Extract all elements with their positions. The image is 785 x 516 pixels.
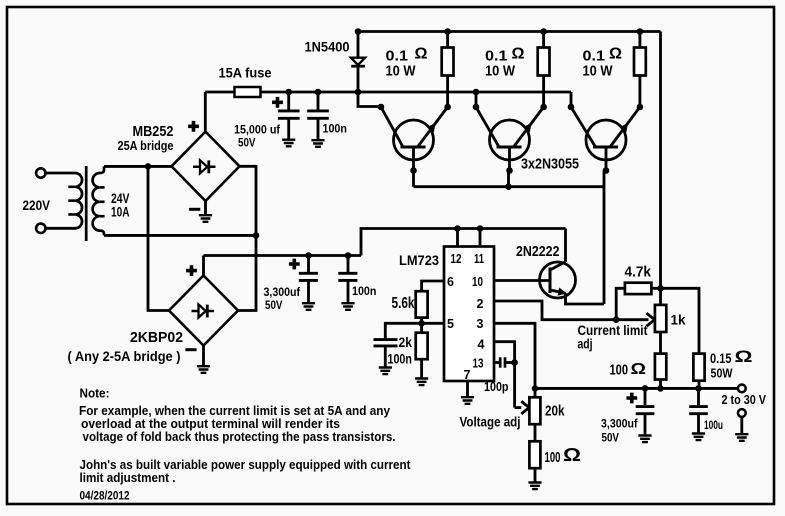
svg-text:3,300uf: 3,300uf [264, 285, 301, 299]
svg-text:5: 5 [447, 317, 454, 331]
wire 2N2222 collector up [564, 229, 567, 262]
svg-text:100u: 100u [704, 418, 723, 432]
svg-text:Ω: Ω [609, 46, 622, 63]
svg-text:1k: 1k [671, 312, 686, 328]
note line 5 [80, 471, 176, 485]
pin number 2 [477, 297, 484, 311]
wire pin 5 to 100n [385, 323, 444, 339]
label 100p [484, 380, 509, 394]
svg-text:50V: 50V [265, 298, 283, 312]
diode symbol inside 2KBP02 [192, 305, 215, 318]
label 3,300uf (C5) [601, 417, 638, 431]
minus polarity mark MB252 [189, 208, 200, 211]
label ohm symbol (100 current limit) [631, 361, 647, 378]
node Q3 base dot [603, 167, 610, 174]
output terminal negative [738, 409, 746, 417]
label 50V [238, 135, 256, 149]
capacitor C1 15,000uf 50V [278, 92, 300, 140]
note line 3 [83, 430, 396, 444]
wire Q3 base stem down to 2N2222 emitter [603, 171, 606, 305]
svg-text:100n: 100n [388, 351, 412, 366]
label Voltage adj [460, 414, 521, 430]
transistor Q3 2N3055 [571, 107, 640, 171]
bridge rectifier 2KBP02 diamond [169, 276, 238, 346]
node junction pin 12 stub [454, 225, 461, 232]
transformer T1 220V primary terminal bottom [36, 224, 45, 233]
label ohm symbol (R1) [415, 46, 428, 63]
node junction secondary-top / bridge2 feed [145, 163, 152, 170]
node junction rail/diode top [355, 28, 362, 35]
svg-text:Ω: Ω [415, 46, 428, 63]
svg-text:0.15: 0.15 [710, 350, 732, 366]
label ohm symbol (R2) [512, 46, 525, 63]
wire output negative to ground [740, 417, 743, 434]
ground at C6 [692, 434, 705, 441]
node junction 5.6k / 2k / pin 5 [418, 320, 425, 327]
capacitor 100n at pin 5 [374, 340, 398, 368]
label 50V (C5) [602, 431, 620, 445]
svg-text:Note:: Note: [80, 387, 110, 401]
wire to 0.15 ohm sense resistor [661, 288, 700, 353]
wire collector jog to Q1 [358, 92, 381, 107]
svg-text:Ω: Ω [512, 46, 525, 63]
svg-text:2N2222: 2N2222 [516, 244, 560, 260]
node junction rail / 4.7k / 1k / 0.15 [657, 285, 664, 292]
pin number 10 [472, 275, 483, 289]
label 24V [111, 191, 130, 206]
ground at pin 7 [461, 397, 474, 404]
svg-text:10 W: 10 W [485, 63, 516, 80]
output terminal positive [738, 385, 746, 393]
node junction cap 15000uf [285, 89, 292, 96]
svg-text:Ω: Ω [735, 348, 753, 366]
transistor Q4 2N2222 [540, 262, 576, 298]
label ( Any 2-5A bridge ) [68, 348, 181, 364]
wire MB252 plus corner up to fuse [204, 92, 207, 132]
label MB252 [133, 123, 174, 140]
svg-text:100: 100 [610, 363, 629, 379]
svg-text:LM723: LM723 [399, 253, 439, 268]
svg-text:4: 4 [478, 337, 485, 351]
pin number 11 [474, 252, 484, 266]
label 100 (current limit) [610, 363, 629, 379]
wire pin 4 down to voltage adj wiper [494, 342, 515, 408]
node junction 100p / pin4 wire [511, 359, 518, 366]
resistor 5.6k [416, 291, 428, 317]
ground at C4 [341, 303, 354, 310]
note heading [80, 387, 110, 401]
svg-text:3x2N3055: 3x2N3055 [521, 157, 579, 173]
ground at 2KBP02 minus [197, 366, 210, 373]
wire base rail of Q1-Q3 [414, 185, 605, 188]
label 10 W (R3) [583, 63, 614, 80]
label 2 to 30 V [722, 392, 767, 407]
minus polarity mark 2KBP02 [185, 348, 196, 351]
transformer T1 220V primary terminal top [36, 168, 45, 177]
wire top rail [358, 30, 661, 33]
pin number 12 [451, 252, 462, 266]
svg-text:20k: 20k [545, 403, 565, 420]
label 1k [671, 312, 686, 328]
pin number 4 [478, 337, 485, 351]
svg-text:2KBP02: 2KBP02 [130, 330, 183, 346]
node Q1 collector dot [378, 104, 385, 111]
label 20k [545, 403, 565, 420]
label LM723 [399, 253, 439, 268]
svg-text:4.7k: 4.7k [625, 264, 652, 281]
label Current limit [578, 322, 648, 338]
label 4.7k [625, 264, 652, 281]
svg-text:voltage of fold back thus prot: voltage of fold back thus protecting the… [83, 430, 396, 444]
op-amp regulator U1 LM723 [444, 247, 494, 382]
label adj [578, 335, 593, 351]
note line 1 [79, 404, 390, 418]
node junction 0.15 / 100u [695, 385, 702, 392]
capacitor 100p [500, 357, 514, 367]
wire main V+ rail [205, 91, 571, 94]
wire 5.6k bottom to pin5 node [420, 318, 423, 324]
svg-text:220V: 220V [23, 198, 51, 213]
label 100n [323, 122, 347, 136]
wire vertical junction down to 2KBP02 left corner [148, 166, 169, 310]
svg-text:50V: 50V [602, 431, 620, 445]
label 2KBP02 [130, 330, 183, 346]
label 5.6k [392, 295, 415, 312]
svg-text:overload at the output termina: overload at the output terminal will ren… [81, 417, 340, 431]
diode symbol inside MB252 [193, 160, 216, 173]
wire primary top lead [46, 172, 77, 175]
svg-text:Ω: Ω [631, 361, 647, 378]
label 0.1 (R2) [485, 48, 508, 65]
svg-text:John's as built variable power: John's as built variable power supply eq… [80, 458, 412, 472]
svg-text:adj: adj [578, 335, 593, 351]
ground at MB252 minus [199, 215, 212, 222]
wire pin 12 stub [456, 229, 459, 247]
svg-text:10: 10 [472, 275, 483, 289]
label 0.1 (R1) [386, 48, 409, 65]
node junction cap 100n lv [345, 252, 352, 259]
wire 2KBP02 plus stub [202, 256, 205, 276]
ground at C1 [282, 140, 295, 147]
wiper arrow of 1k pot [647, 313, 655, 326]
resistor 4.7k [625, 283, 652, 294]
transformer T1 secondary winding 24V 10A [93, 166, 105, 235]
capacitor C6 100u output [689, 388, 708, 433]
node junction cap 3300uf [305, 252, 312, 259]
wiper arrow of 20k pot [515, 401, 530, 414]
resistor R3 0.1 ohm 10W [634, 32, 646, 108]
node junction main rail / Q2 collector [473, 89, 480, 96]
svg-text:2k: 2k [399, 335, 413, 350]
wire low V+ rail to caps [204, 254, 362, 257]
svg-text:10A: 10A [111, 204, 130, 219]
node junction pin 11 stub [477, 225, 484, 232]
wire collector stub Q2 [475, 92, 478, 107]
label 50W [711, 366, 734, 381]
svg-text:Ω: Ω [563, 445, 581, 465]
svg-text:50W: 50W [711, 366, 734, 381]
wire pin 7 to ground [466, 381, 469, 397]
plus polarity mark C3 [289, 259, 300, 270]
wire primary bottom lead [46, 227, 77, 230]
wire secondary top to bridge MB252 left corner [104, 165, 172, 168]
plus polarity mark MB252 [188, 121, 199, 132]
node junction rail / resistor R3 [637, 28, 644, 35]
label 3x2N3055 [521, 157, 579, 173]
svg-text:( Any 2-5A bridge ): ( Any 2-5A bridge ) [68, 348, 181, 364]
transistor Q2 2N3055 [476, 107, 544, 171]
ground at voltage divider [528, 483, 541, 490]
wire pin 6 to 5.6k [422, 281, 444, 291]
ground at C3 [302, 303, 315, 310]
note line 4 [80, 458, 412, 472]
wire secondary bottom horizontal [104, 234, 256, 237]
svg-text:100p: 100p [484, 380, 509, 394]
svg-text:5.6k: 5.6k [392, 295, 415, 312]
node junction output cap 3300uf [642, 385, 649, 392]
resistor 0.15 ohm 50W [693, 354, 704, 389]
svg-text:3,300uf: 3,300uf [601, 417, 638, 431]
node Q3 collector dot [568, 104, 575, 111]
resistor R2 0.1 ohm 10W [538, 32, 550, 108]
wire pin 10 to 2N2222 base [494, 279, 550, 282]
wire bridge MB252 right corner down to 2KBP02 right corner [238, 166, 256, 310]
label 100 (voltage divider) [545, 450, 561, 466]
svg-text:limit adjustment .: limit adjustment . [80, 471, 176, 485]
wire right rail down to current limit network [659, 32, 662, 289]
note date 04/28/2012 [80, 489, 130, 503]
wire Q1 base stem [412, 171, 415, 187]
svg-text:04/28/2012: 04/28/2012 [80, 489, 130, 503]
node junction Q2 base / base rail [505, 183, 512, 190]
capacitor C4 100n [338, 256, 357, 304]
wire 4.7k right lead [651, 287, 660, 290]
node junction rail / resistor R1 [444, 28, 451, 35]
svg-text:2: 2 [477, 297, 484, 311]
pin number 5 [447, 317, 454, 331]
note line 2 [81, 417, 340, 431]
label 100n (C4) [352, 284, 376, 298]
svg-text:12: 12 [451, 252, 462, 266]
transformer T1 core [85, 166, 88, 241]
wire lv rail up and over to LM723 and 2N2222 collector [361, 229, 566, 256]
plus polarity mark C5 [626, 393, 637, 404]
resistor 2k [416, 323, 428, 378]
label 25A bridge [118, 138, 174, 153]
node junction pin3 / output / 20k [532, 385, 539, 392]
svg-text:100: 100 [545, 450, 561, 466]
svg-text:50V: 50V [238, 135, 256, 149]
label 2N2222 [516, 244, 560, 260]
label 3,300uf [264, 285, 301, 299]
node junction 4.7k / wiper wire [613, 316, 620, 323]
label 220V [23, 198, 51, 213]
pin number 13 [473, 356, 484, 370]
label 10 W (R1) [386, 63, 417, 80]
svg-text:7: 7 [464, 368, 471, 382]
transformer T1 primary winding [68, 173, 82, 228]
svg-text:10 W: 10 W [386, 63, 417, 80]
wire 2KBP02 bottom corner to ground [202, 346, 205, 367]
node junction diode/main rail [355, 89, 362, 96]
svg-text:3: 3 [477, 317, 484, 331]
svg-text:2 to 30 V: 2 to 30 V [722, 392, 767, 407]
label 100n (pin5) [388, 351, 412, 366]
node Q1 emitter dot [444, 104, 451, 111]
ground at pin5 100n [379, 368, 392, 375]
ground at 2k [415, 379, 428, 386]
pin number 6 [447, 275, 454, 289]
bridge rectifier MB252 diamond [172, 132, 240, 201]
ground at C5 [638, 436, 651, 443]
node Q1 base dot [410, 167, 417, 174]
svg-text:100n: 100n [323, 122, 347, 136]
label 10A [111, 204, 130, 219]
label 2k [399, 335, 413, 350]
label 1N5400 [305, 40, 350, 55]
capacitor C3 3,300uf 50V [299, 256, 318, 304]
node junction 100 ohm bottom [657, 385, 664, 392]
wire MB252 bottom corner to ground [204, 201, 207, 215]
label ohm symbol (R3) [609, 46, 622, 63]
wire pin 13 to 100p [494, 361, 500, 364]
node junction rail / resistor R2 [540, 28, 547, 35]
diode D1 1N5400 [351, 58, 365, 66]
fuse 15A [235, 87, 261, 97]
plus polarity mark C1 [272, 97, 283, 108]
label 50V (C3) [265, 298, 283, 312]
label 15,000 uf [234, 123, 281, 137]
svg-text:10 W: 10 W [583, 63, 614, 80]
pin number 3 [477, 317, 484, 331]
svg-text:15A fuse: 15A fuse [219, 66, 272, 81]
node Q3 emitter dot [637, 104, 644, 111]
capacitor C2 100n [307, 92, 329, 140]
potentiometer 1k [655, 288, 666, 353]
node junction secondary-bottom / bridge AC feed [253, 232, 260, 239]
wire pin 2 to current limit wiper [494, 301, 649, 320]
label 100u (C6) [704, 418, 723, 432]
wire 2N2222 emitter to Q3 base line [566, 293, 605, 304]
svg-text:1N5400: 1N5400 [305, 40, 350, 55]
label 15A fuse [219, 66, 272, 81]
potentiometer 20k [529, 388, 540, 441]
svg-text:100n: 100n [352, 284, 376, 298]
svg-text:13: 13 [473, 356, 484, 370]
svg-text:11: 11 [474, 252, 484, 266]
node Q2 emitter dot [540, 104, 547, 111]
resistor 100 ohm (current limit divider) [655, 354, 666, 389]
wire output rail [535, 387, 738, 390]
node junction cap 100n input [315, 89, 322, 96]
wire 4.7k left lead [616, 288, 625, 319]
capacitor C5 3,300uf 50V output [636, 388, 655, 435]
wire main rail end down to Q3 collector [570, 92, 573, 107]
label ohm symbol (100 voltage divider) [563, 445, 581, 465]
wire pin 3 to output sense [494, 323, 535, 388]
label 0.15 [710, 350, 732, 366]
label 10 W (R2) [485, 63, 516, 80]
wire pin 11 stub [479, 229, 482, 247]
label ohm symbol (0.15) [735, 348, 753, 366]
ground at output negative [735, 434, 748, 441]
pin number 7 [464, 368, 471, 382]
node Q2 base dot [506, 167, 513, 174]
transistor Q1 2N3055 [381, 107, 448, 171]
svg-text:For example, when the current: For example, when the current limit is s… [79, 404, 390, 418]
resistor R1 0.1 ohm 10W [442, 32, 454, 108]
svg-text:6: 6 [447, 275, 454, 289]
wire 1N5400 stem [357, 32, 360, 93]
label 0.1 (R3) [583, 48, 606, 65]
wire Q2 base stem [507, 171, 510, 187]
plus polarity mark 2KBP02 [186, 265, 197, 276]
ground at C2 [311, 140, 324, 147]
svg-text:25A bridge: 25A bridge [118, 138, 174, 153]
svg-text:Voltage adj: Voltage adj [460, 414, 521, 430]
resistor 100 ohm (voltage divider) [529, 441, 540, 482]
node Q2 collector dot [473, 104, 480, 111]
